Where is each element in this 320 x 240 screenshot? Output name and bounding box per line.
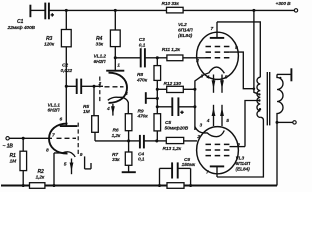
capacitor C1 plates <box>45 3 49 20</box>
svg-text:C1: C1 <box>17 19 24 25</box>
svg-text:22мкф 400В: 22мкф 400В <box>7 24 36 31</box>
VL3 cathode <box>195 127 224 137</box>
+300V supply terminal <box>252 9 297 12</box>
VL2 anode pin 7 <box>210 22 224 38</box>
svg-text:7: 7 <box>52 133 55 139</box>
resistor R10 <box>167 7 184 13</box>
svg-text:7: 7 <box>211 26 214 32</box>
wire C1 to rail node <box>49 9 66 11</box>
node dot R6/R7/C4 <box>127 139 130 142</box>
capacitor C4 <box>140 135 157 149</box>
svg-text:120к: 120к <box>44 41 55 47</box>
svg-text:R3: R3 <box>46 36 53 42</box>
svg-text:150мк: 150мк <box>182 162 196 168</box>
svg-text:(EL84): (EL84) <box>236 167 251 173</box>
VL1.1 pin 9 stub <box>85 156 91 169</box>
svg-text:50мкф20В: 50мкф20В <box>165 124 189 131</box>
VL2 grid rows <box>206 47 230 58</box>
VL1.2 node dot anode/R4/C3 <box>114 56 117 59</box>
svg-text:R6: R6 <box>113 128 119 134</box>
terminal stub bar mid <box>146 92 158 104</box>
VL3 anode pin 7 <box>210 166 224 177</box>
resistor R4 <box>110 9 120 58</box>
VL1.1 cathode <box>52 152 75 187</box>
resistor R6 <box>125 114 132 141</box>
svg-text:470к: 470к <box>136 77 148 83</box>
VL1.1 heater pin 5 arrow <box>70 159 74 175</box>
VL3 grid rows <box>206 144 230 155</box>
svg-text:0,022: 0,022 <box>61 68 73 74</box>
node dot column/stub <box>156 97 159 100</box>
VL1.2 anode <box>106 58 124 71</box>
VL3 heater arrows pins 4,5 <box>212 105 224 126</box>
svg-text:R13 1,2к: R13 1,2к <box>163 146 182 152</box>
svg-text:4: 4 <box>206 75 210 81</box>
grid rail wire R6/R7/C4/R13 <box>129 140 140 142</box>
svg-text:3: 3 <box>125 91 128 97</box>
VL3 screen pin 9 wire <box>230 146 246 148</box>
VL2 screen pin 9 wire <box>230 52 254 89</box>
primary tap dot 1 <box>258 93 260 95</box>
svg-text:6: 6 <box>60 117 63 123</box>
capacitor C6 <box>160 162 191 185</box>
VL2 cathode <box>195 67 225 130</box>
node dot column/C5 <box>156 105 159 108</box>
transformer T1 primary winding <box>257 77 260 117</box>
svg-text:7: 7 <box>206 169 209 175</box>
svg-text:8: 8 <box>46 147 49 153</box>
svg-text:6П14П: 6П14П <box>236 161 251 167</box>
triode VL1.1 envelope <box>49 123 78 155</box>
svg-text:+300 В: +300 В <box>276 1 292 7</box>
svg-text:9: 9 <box>237 142 240 148</box>
svg-text:2: 2 <box>195 58 199 64</box>
cathode junction dot R12 <box>193 88 196 91</box>
resistor R2 <box>30 183 45 189</box>
svg-text:33к: 33к <box>112 157 120 163</box>
svg-text:R2: R2 <box>38 169 45 175</box>
svg-text:3: 3 <box>201 73 204 79</box>
capacitor C5 <box>157 97 195 116</box>
node dot C6 right <box>189 184 192 187</box>
VL1.1 anode <box>60 86 78 126</box>
svg-text:5: 5 <box>64 162 67 168</box>
ground bus wire <box>1 185 277 187</box>
svg-text:33к: 33к <box>96 41 104 47</box>
svg-text:9: 9 <box>235 45 238 51</box>
bias resistor in bus <box>167 183 184 189</box>
transformer secondary winding <box>277 74 283 122</box>
svg-text:R10 33к: R10 33к <box>162 1 180 7</box>
pentode VL3 envelope <box>197 127 239 174</box>
VL3 plate wire to transformer <box>217 117 263 177</box>
capacitor C1 input stub bar <box>29 5 31 18</box>
svg-text:4: 4 <box>206 118 210 124</box>
svg-text:4: 4 <box>106 106 110 112</box>
svg-text:0,1: 0,1 <box>138 157 145 163</box>
resistor R13 <box>157 137 197 143</box>
svg-text:470к: 470к <box>137 114 149 120</box>
svg-text:1,2к: 1,2к <box>36 175 45 181</box>
resistor R12 <box>157 86 195 92</box>
svg-text:5: 5 <box>226 118 229 124</box>
node dot C2 / R5 / grid VL1.2 <box>92 85 95 88</box>
VL3 screen riser wire <box>245 101 259 147</box>
transformer core <box>267 72 269 125</box>
svg-text:1М: 1М <box>10 158 18 164</box>
svg-text:2: 2 <box>196 134 200 140</box>
node dot C1/R3 junction <box>65 9 68 12</box>
svg-text:C5: C5 <box>165 120 171 126</box>
node dot R8/R12 <box>156 88 159 91</box>
svg-text:6П14П: 6П14П <box>178 27 193 33</box>
capacitor C3 <box>115 48 157 67</box>
primary tap dot 3 <box>259 108 261 110</box>
secondary bottom junction dot <box>276 121 279 124</box>
svg-text:2: 2 <box>98 81 102 87</box>
VL1.2 cathode <box>108 97 129 114</box>
resistor R7 <box>125 141 132 172</box>
svg-text:VL1.2: VL1.2 <box>94 54 107 60</box>
svg-text:VL3: VL3 <box>236 156 245 162</box>
resistor R11 <box>157 55 205 61</box>
svg-text:~ 1В: ~ 1В <box>3 143 14 149</box>
pentode VL2 envelope <box>197 32 239 79</box>
svg-text:C2: C2 <box>62 63 68 69</box>
svg-text:(EL84): (EL84) <box>178 33 193 39</box>
svg-text:C3: C3 <box>139 37 145 43</box>
+300V feed wire to primary center <box>254 10 259 94</box>
secondary top lead and terminal bar <box>277 68 291 81</box>
secondary polarity dot <box>279 77 281 79</box>
svg-text:9: 9 <box>80 152 83 158</box>
svg-text:R7: R7 <box>112 152 118 158</box>
svg-text:R9: R9 <box>138 108 144 114</box>
svg-text:R12 130: R12 130 <box>164 81 182 87</box>
svg-text:C6: C6 <box>184 157 190 163</box>
resistor R1 <box>20 138 27 187</box>
VL2 plate wire to transformer <box>217 22 260 77</box>
svg-text:6Н2П: 6Н2П <box>94 59 107 65</box>
VL1.2 grid <box>94 85 124 88</box>
junction dot screen/+300 <box>253 87 256 90</box>
svg-text:C4: C4 <box>138 152 144 158</box>
svg-text:VL1.1: VL1.1 <box>48 102 61 108</box>
svg-text:R5: R5 <box>83 104 89 110</box>
cathode junction dot C5 <box>193 105 196 108</box>
VL1.2 heater pin 4 arrow <box>111 104 115 116</box>
svg-text:1,2к: 1,2к <box>112 133 121 139</box>
ground symbol R7 <box>122 171 136 173</box>
wire +300V rail <box>66 9 294 11</box>
svg-text:3: 3 <box>200 122 203 128</box>
node dot C4/R9/R13 <box>155 139 158 142</box>
triode VL1.2 envelope <box>100 73 127 104</box>
secondary return wire to bus <box>276 122 278 185</box>
VL2 heater arrows pins 4,5 <box>212 75 224 93</box>
VL1.1 grid <box>57 137 77 139</box>
svg-text:R4: R4 <box>96 36 103 42</box>
capacitor C2 <box>66 79 94 94</box>
resistor R9 <box>154 114 161 141</box>
svg-text:0,1: 0,1 <box>139 42 146 48</box>
svg-text:R8: R8 <box>137 72 143 78</box>
resistor R5 <box>92 86 129 141</box>
svg-text:R11 1,2к: R11 1,2к <box>162 47 181 53</box>
svg-text:5: 5 <box>225 75 228 81</box>
svg-text:R1: R1 <box>10 153 17 159</box>
svg-text:1: 1 <box>117 62 120 68</box>
resistor R3 <box>61 10 71 86</box>
primary tap dot 2 <box>258 99 260 101</box>
node dot C6 left <box>158 184 161 187</box>
resistor R8 <box>154 58 161 114</box>
node dot anode VL1.1 / C2 <box>65 85 68 88</box>
output terminal circle <box>277 121 296 124</box>
svg-text:6Н2П: 6Н2П <box>48 108 61 114</box>
svg-text:1М: 1М <box>83 109 91 115</box>
svg-text:VL2: VL2 <box>178 22 187 28</box>
node A dot C3/R8/R11 <box>156 56 159 59</box>
C1 polarity plus <box>51 13 54 16</box>
input terminal <box>6 137 52 140</box>
wire C1 left lead <box>30 9 45 11</box>
